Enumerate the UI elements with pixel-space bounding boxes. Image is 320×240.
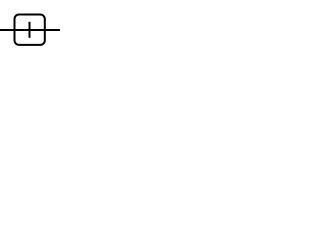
plus sign vertical bar (center of junction) xyxy=(29,22,31,38)
summing junction box (rounded-square component body) xyxy=(15,15,45,45)
wire (horizontal through-conductor, left lead to right lead) xyxy=(0,29,60,31)
